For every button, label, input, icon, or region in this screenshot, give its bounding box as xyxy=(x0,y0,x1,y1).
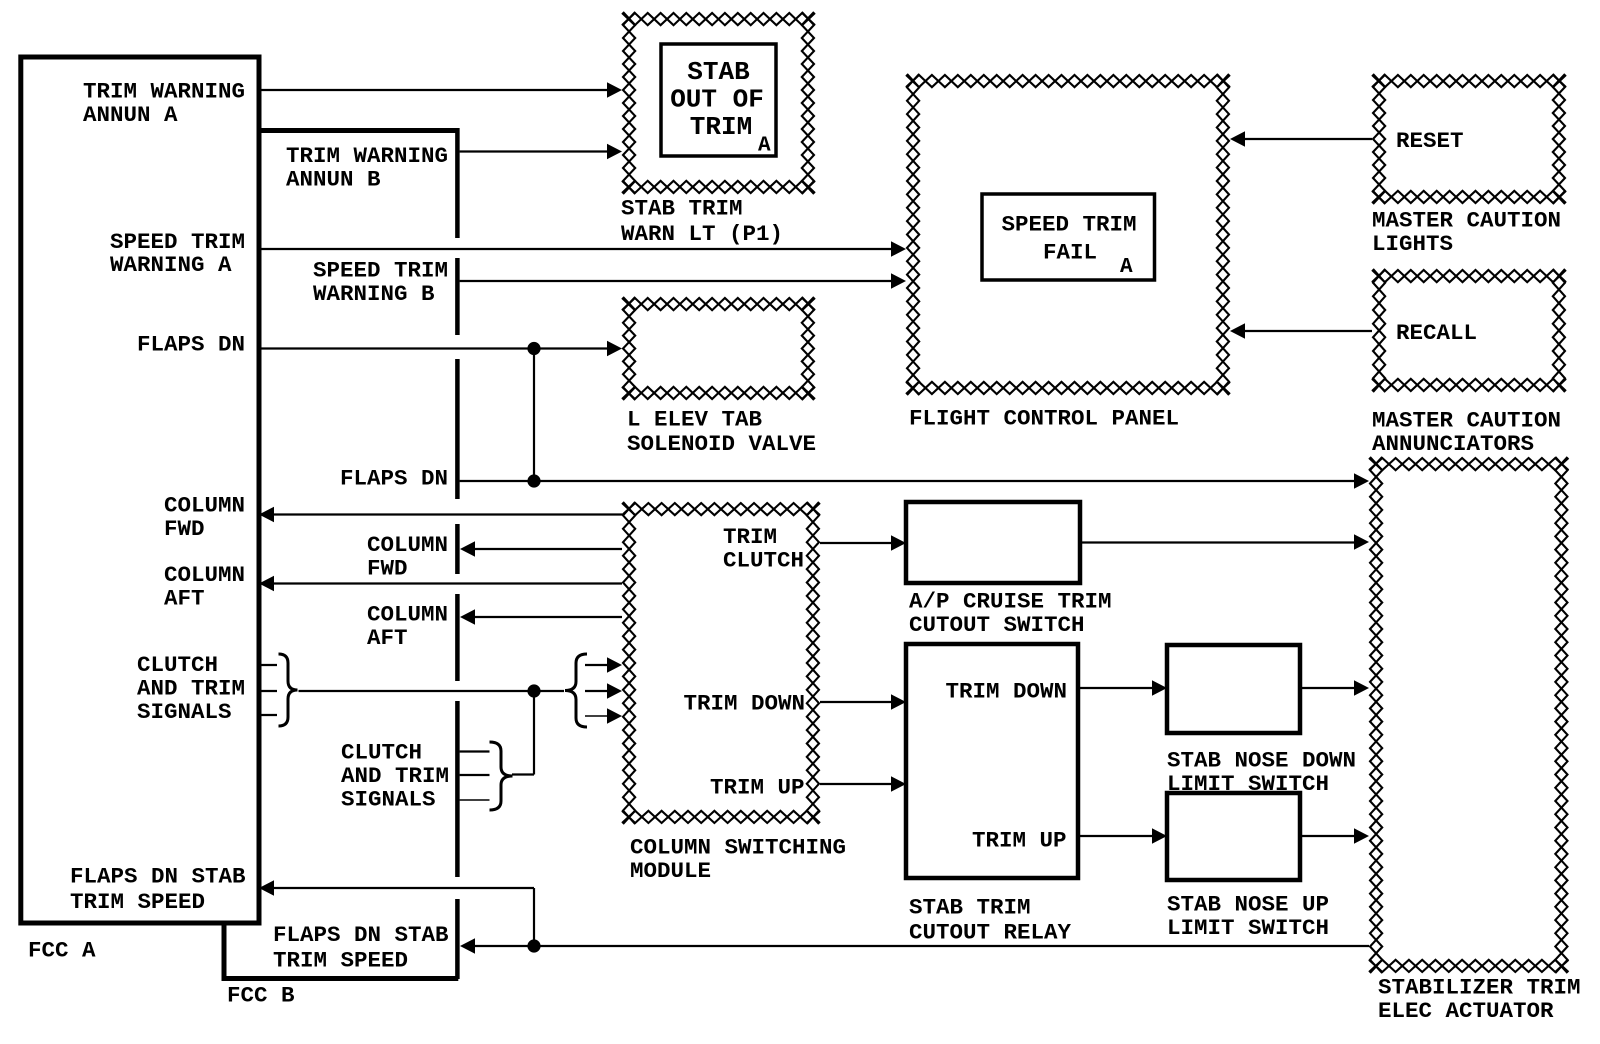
svg-text:TRIM DOWN: TRIM DOWN xyxy=(946,679,1068,705)
switch STAB NOSE DOWN LIMIT SWITCH xyxy=(1167,645,1356,797)
wire clutch arrows into module xyxy=(585,657,622,724)
svg-text:STAB TRIM: STAB TRIM xyxy=(621,196,743,222)
wire RESET : master caution lights to flight control panel xyxy=(1230,131,1372,147)
svg-text:A/P CRUISE TRIM: A/P CRUISE TRIM xyxy=(909,589,1112,615)
wire nose down limit switch to actuator xyxy=(1300,680,1369,696)
svg-text:MASTER CAUTION: MASTER CAUTION xyxy=(1372,208,1561,234)
svg-text:WARN LT (P1): WARN LT (P1) xyxy=(621,221,783,247)
svg-text:CUTOUT RELAY: CUTOUT RELAY xyxy=(909,920,1072,946)
node junction clutch signals xyxy=(527,684,540,697)
wire SPEED TRIM WARNING B : FCC B to flight control panel xyxy=(460,273,906,289)
lamp SPEED TRIM FAIL A xyxy=(982,194,1155,280)
svg-text:STAB: STAB xyxy=(687,57,750,87)
svg-text:WARNING B: WARNING B xyxy=(313,281,435,307)
wire FLAPS DN B : FCC B to stab trim actuator xyxy=(460,473,1369,489)
brace clutch signals FCC A xyxy=(279,654,298,726)
svg-text:RECALL: RECALL xyxy=(1396,320,1477,346)
svg-text:AFT: AFT xyxy=(164,586,205,612)
svg-text:STAB NOSE UP: STAB NOSE UP xyxy=(1167,892,1329,918)
wire COLUMN AFT A : module to FCC A xyxy=(259,576,622,592)
svg-text:TRIM SPEED: TRIM SPEED xyxy=(70,889,205,915)
svg-text:FAIL: FAIL xyxy=(1043,240,1097,266)
panel FLIGHT CONTROL PANEL xyxy=(906,74,1230,432)
svg-text:COLUMN: COLUMN xyxy=(367,532,448,558)
svg-text:LIMIT SWITCH: LIMIT SWITCH xyxy=(1167,915,1329,941)
svg-text:OUT OF: OUT OF xyxy=(670,84,764,114)
svg-text:AND TRIM: AND TRIM xyxy=(137,676,245,702)
svg-text:FWD: FWD xyxy=(164,516,205,542)
wire RECALL : master caution annunciators to flight control panel xyxy=(1230,323,1372,339)
svg-text:COLUMN: COLUMN xyxy=(164,562,245,588)
svg-text:TRIM UP: TRIM UP xyxy=(972,828,1067,854)
node junction FLAPS DN A xyxy=(527,342,540,355)
brace clutch signals module entry xyxy=(565,654,587,727)
svg-text:TRIM SPEED: TRIM SPEED xyxy=(273,948,408,974)
svg-text:FLIGHT CONTROL PANEL: FLIGHT CONTROL PANEL xyxy=(909,406,1179,432)
svg-text:TRIM: TRIM xyxy=(723,524,777,550)
wire TRIM WARNING ANNUN A : FCC A to warn light xyxy=(259,82,622,98)
wire TRIM DOWN : relay to nose down limit switch xyxy=(1078,680,1167,696)
computer FCC B xyxy=(222,128,459,1009)
wire COLUMN FWD B : module to FCC B xyxy=(460,541,622,557)
actuator STABILIZER TRIM ELEC ACTUATOR xyxy=(1369,457,1581,1024)
svg-text:RESET: RESET xyxy=(1396,128,1464,154)
svg-text:CLUTCH: CLUTCH xyxy=(137,652,218,678)
switch STAB NOSE UP LIMIT SWITCH xyxy=(1167,793,1329,941)
svg-text:FWD: FWD xyxy=(367,556,408,582)
annunciator STAB TRIM WARN LT (P1) xyxy=(621,12,815,247)
wire FLAPS DN A : FCC A to solenoid valve xyxy=(259,341,622,357)
module COLUMN SWITCHING MODULE xyxy=(622,502,846,884)
svg-text:TRIM: TRIM xyxy=(690,112,752,142)
svg-text:CLUTCH: CLUTCH xyxy=(341,740,422,766)
svg-text:FCC A: FCC A xyxy=(28,938,96,964)
svg-text:FLAPS DN STAB: FLAPS DN STAB xyxy=(70,864,246,890)
svg-text:SOLENOID VALVE: SOLENOID VALVE xyxy=(627,431,816,457)
solenoid valve L ELEV TAB xyxy=(622,297,816,457)
svg-text:TRIM WARNING: TRIM WARNING xyxy=(83,79,245,105)
svg-text:COLUMN: COLUMN xyxy=(367,602,448,628)
svg-text:FLAPS DN: FLAPS DN xyxy=(340,466,448,492)
svg-text:WARNING A: WARNING A xyxy=(110,252,232,278)
relay STAB TRIM CUTOUT RELAY xyxy=(906,644,1078,946)
svg-text:MASTER CAUTION: MASTER CAUTION xyxy=(1372,408,1561,434)
brace clutch signals FCC B xyxy=(490,742,513,810)
svg-text:COLUMN SWITCHING: COLUMN SWITCHING xyxy=(630,835,846,861)
computer FCC A xyxy=(21,57,259,964)
wire clutch+trim stubs FCC A xyxy=(259,665,277,715)
svg-text:STAB TRIM: STAB TRIM xyxy=(909,895,1031,921)
wire clutch+trim stubs FCC B xyxy=(460,752,490,801)
svg-text:A: A xyxy=(1120,256,1133,279)
node junction FLAPS DN STAB TRIM SPEED xyxy=(527,939,540,952)
svg-text:SPEED TRIM: SPEED TRIM xyxy=(313,258,448,284)
wire TRIM DOWN : module to relay xyxy=(820,694,906,710)
box MASTER CAUTION LIGHTS (RESET) xyxy=(1372,74,1566,257)
wire junction drop FLAPS DN A-B xyxy=(533,349,535,482)
svg-text:TRIM DOWN: TRIM DOWN xyxy=(684,691,806,717)
switch A/P CRUISE TRIM CUTOUT SWITCH xyxy=(906,502,1112,638)
wire clutch+trim merged A xyxy=(299,690,541,692)
svg-text:COLUMN: COLUMN xyxy=(164,493,245,519)
wire A/P cutout switch to actuator xyxy=(1080,534,1369,550)
wire junction drop clutch A-B xyxy=(533,691,535,775)
node junction FLAPS DN B xyxy=(527,474,540,487)
svg-text:FLAPS DN STAB: FLAPS DN STAB xyxy=(273,922,449,948)
svg-text:FLAPS DN: FLAPS DN xyxy=(137,332,245,358)
svg-text:MODULE: MODULE xyxy=(630,858,711,884)
wire junction to module brace xyxy=(534,690,564,692)
svg-text:A: A xyxy=(758,135,771,158)
svg-text:SPEED TRIM: SPEED TRIM xyxy=(1001,212,1136,238)
svg-text:STAB NOSE DOWN: STAB NOSE DOWN xyxy=(1167,748,1356,774)
svg-text:CUTOUT SWITCH: CUTOUT SWITCH xyxy=(909,612,1085,638)
svg-text:TRIM UP: TRIM UP xyxy=(710,775,805,801)
box MASTER CAUTION ANNUNCIATORS (RECALL) xyxy=(1372,269,1566,457)
wire FLAPS DN STAB TRIM SPEED to FCC A xyxy=(259,880,534,946)
svg-text:L ELEV TAB: L ELEV TAB xyxy=(627,407,763,433)
wire COLUMN AFT B : module to FCC B xyxy=(460,609,622,625)
wire TRIM UP : relay to nose up limit switch xyxy=(1078,828,1167,844)
wire FLAPS DN STAB TRIM SPEED : actuator to FCC B xyxy=(460,938,1369,954)
wire TRIM CLUTCH : module to A/P cutout switch xyxy=(820,535,906,551)
svg-text:SIGNALS: SIGNALS xyxy=(137,699,232,725)
svg-text:ANNUN B: ANNUN B xyxy=(286,167,381,193)
wire COLUMN FWD A : module to FCC A xyxy=(259,507,622,523)
wire nose up limit switch to actuator xyxy=(1300,828,1369,844)
svg-text:ANNUNCIATORS: ANNUNCIATORS xyxy=(1372,431,1534,457)
wire SPEED TRIM WARNING A : FCC A to flight control panel xyxy=(259,241,906,257)
svg-text:ELEC ACTUATOR: ELEC ACTUATOR xyxy=(1378,998,1554,1024)
wire TRIM UP : module to relay xyxy=(820,776,906,792)
svg-text:SIGNALS: SIGNALS xyxy=(341,787,436,813)
svg-text:ANNUN A: ANNUN A xyxy=(83,102,178,128)
svg-text:FCC B: FCC B xyxy=(227,983,295,1009)
svg-text:AFT: AFT xyxy=(367,625,408,651)
svg-text:AND TRIM: AND TRIM xyxy=(341,763,449,789)
wire B brace to junction xyxy=(512,773,534,775)
svg-text:CLUTCH: CLUTCH xyxy=(723,548,804,574)
svg-text:TRIM WARNING: TRIM WARNING xyxy=(286,143,448,169)
wire TRIM WARNING ANNUN B : FCC B to warn light xyxy=(460,144,622,160)
svg-text:STABILIZER TRIM: STABILIZER TRIM xyxy=(1378,975,1581,1001)
svg-text:LIGHTS: LIGHTS xyxy=(1372,231,1453,257)
